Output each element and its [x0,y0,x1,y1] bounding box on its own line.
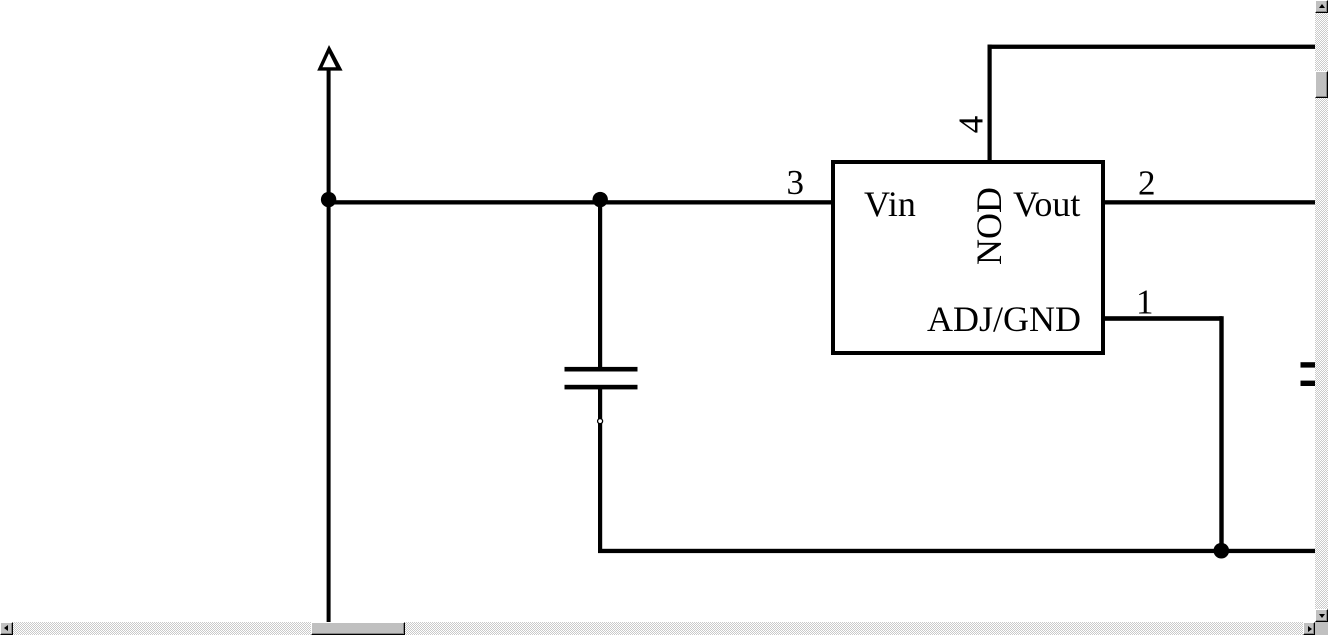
svg-text:1: 1 [1136,283,1154,322]
svg-text:Vin: Vin [864,184,916,224]
svg-text:2: 2 [1138,163,1156,202]
svg-text:ADJ/GND: ADJ/GND [927,299,1081,339]
svg-text:4: 4 [952,116,991,134]
svg-text:Vout: Vout [1013,184,1080,224]
svg-text:NOD: NOD [969,187,1009,265]
svg-text:3: 3 [787,163,805,202]
